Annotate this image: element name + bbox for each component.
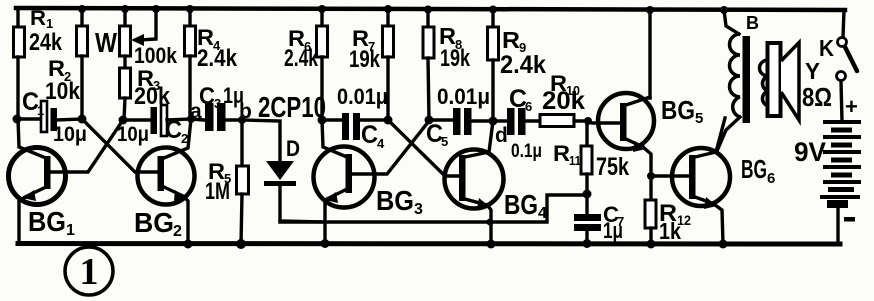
node d	[495, 124, 508, 147]
transformer B primary winding	[717, 10, 759, 151]
capacitor C5 0.01u	[426, 84, 493, 149]
transistor BG3	[314, 120, 430, 243]
svg-text:10μ: 10μ	[117, 123, 149, 146]
capacitor C3 1u	[191, 83, 244, 131]
transistor BG2	[82, 119, 195, 244]
svg-text:B: B	[746, 13, 759, 33]
transformer core	[743, 36, 751, 123]
wire R11/C7 tap to emitter line	[280, 195, 587, 222]
svg-text:1k: 1k	[659, 218, 681, 244]
svg-text:2CP10: 2CP10	[258, 92, 326, 124]
svg-text:100k: 100k	[134, 43, 178, 68]
svg-text:2.4k: 2.4k	[197, 45, 238, 72]
svg-text:BG: BG	[661, 95, 695, 125]
resistor R11	[553, 121, 629, 194]
svg-text:3: 3	[214, 96, 221, 111]
svg-text:19k: 19k	[349, 46, 381, 73]
resistor R1	[14, 7, 63, 120]
resistor R4	[185, 10, 238, 120]
potentiometer W 100k	[95, 10, 178, 68]
svg-text:C: C	[165, 116, 182, 144]
svg-text:1: 1	[37, 103, 44, 118]
svg-text:4: 4	[377, 136, 385, 151]
svg-text:9V: 9V	[794, 137, 826, 167]
resistor R7	[349, 9, 394, 120]
svg-text:BG: BG	[741, 154, 767, 184]
node a	[190, 100, 202, 123]
svg-text:R: R	[30, 7, 46, 30]
svg-text:3: 3	[414, 201, 423, 218]
svg-text:BG: BG	[28, 206, 66, 237]
svg-text:BG: BG	[376, 185, 414, 216]
svg-text:4: 4	[538, 205, 547, 222]
svg-text:6: 6	[767, 170, 775, 187]
svg-text:19k: 19k	[440, 45, 470, 72]
svg-text:5: 5	[695, 110, 703, 127]
svg-text:5: 5	[441, 134, 448, 149]
svg-text:C: C	[361, 121, 378, 149]
resistor R2	[45, 10, 88, 119]
svg-text:75k: 75k	[596, 153, 629, 181]
svg-text:0.01μ: 0.01μ	[437, 84, 490, 109]
svg-text:+: +	[845, 94, 858, 119]
capacitor C7 1u	[574, 194, 624, 244]
capacitor C2 10u	[117, 105, 191, 146]
svg-text:2.4k: 2.4k	[500, 51, 546, 79]
transformer B secondary winding	[760, 60, 769, 106]
svg-text:R: R	[553, 141, 570, 166]
svg-text:2: 2	[173, 223, 182, 240]
junction dots bottom rail	[184, 239, 728, 249]
svg-text:BG: BG	[504, 189, 538, 220]
speaker Y 8ohm	[768, 43, 833, 121]
svg-text:D: D	[286, 136, 300, 161]
battery 9V	[794, 94, 861, 244]
svg-text:10μ: 10μ	[53, 123, 87, 146]
svg-text:Y: Y	[805, 58, 820, 84]
figure number 1	[65, 247, 113, 295]
svg-text:11: 11	[569, 153, 581, 168]
svg-text:K: K	[819, 35, 834, 61]
svg-text:20k: 20k	[542, 87, 585, 115]
svg-text:24k: 24k	[29, 29, 63, 56]
svg-text:8Ω: 8Ω	[802, 82, 832, 112]
capacitor C1 10u	[17, 88, 87, 146]
svg-text:0.01μ: 0.01μ	[337, 84, 388, 109]
wire top supply rail	[16, 8, 845, 10]
wire bottom ground rail	[18, 241, 840, 247]
svg-text:1μ: 1μ	[603, 218, 623, 243]
svg-text:R: R	[502, 27, 520, 53]
resistor R10	[540, 71, 588, 127]
svg-text:BG: BG	[134, 207, 174, 238]
resistor R12	[645, 176, 691, 244]
svg-text:2.4k: 2.4k	[284, 45, 318, 72]
transistor BG6	[651, 118, 775, 244]
svg-text:10k: 10k	[45, 78, 81, 105]
transistor BG1	[9, 119, 124, 243]
junction dots middle wire	[13, 115, 656, 226]
junction dots top rail	[78, 5, 728, 14]
diode D 2CP10	[242, 92, 326, 222]
resistor R6	[284, 9, 328, 120]
resistor R8	[423, 10, 470, 120]
transistor BG5	[588, 10, 703, 176]
svg-text:1M: 1M	[205, 178, 230, 205]
node b	[239, 100, 252, 123]
svg-text:W: W	[95, 27, 117, 58]
resistor R9	[488, 10, 547, 121]
svg-text:1: 1	[80, 251, 99, 293]
switch K	[819, 10, 857, 121]
svg-text:6: 6	[525, 99, 532, 114]
capacitor C6 0.1u	[493, 85, 542, 162]
capacitor C4 0.01u	[322, 84, 388, 151]
transistor BG4	[388, 120, 547, 244]
resistor R5	[205, 120, 249, 244]
resistor R3	[120, 56, 171, 120]
svg-text:1: 1	[66, 222, 75, 239]
svg-text:0.1μ: 0.1μ	[511, 141, 542, 162]
svg-text:d: d	[495, 124, 508, 147]
